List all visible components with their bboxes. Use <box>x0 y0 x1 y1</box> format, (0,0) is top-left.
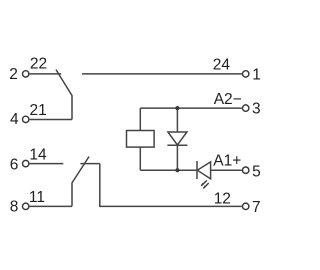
svg-text:21: 21 <box>30 102 47 119</box>
svg-text:8: 8 <box>10 198 19 215</box>
svg-text:22: 22 <box>30 56 47 73</box>
svg-text:11: 11 <box>29 189 45 206</box>
svg-text:A2−: A2− <box>214 91 242 108</box>
svg-text:7: 7 <box>252 199 261 216</box>
svg-text:6: 6 <box>10 156 19 173</box>
svg-text:5: 5 <box>252 163 261 180</box>
svg-text:24: 24 <box>213 57 231 74</box>
svg-text:12: 12 <box>214 190 231 207</box>
svg-text:1: 1 <box>252 67 261 84</box>
svg-text:14: 14 <box>29 146 47 163</box>
svg-text:3: 3 <box>252 101 261 118</box>
svg-text:4: 4 <box>10 111 19 128</box>
svg-text:A1+: A1+ <box>213 152 241 169</box>
svg-text:2: 2 <box>9 66 18 83</box>
